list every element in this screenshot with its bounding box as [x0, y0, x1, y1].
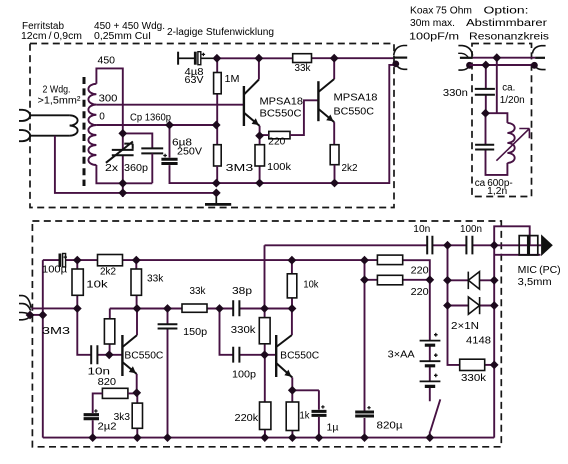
- resistor R9 10k: [72, 269, 83, 295]
- svg-text:3,5mm: 3,5mm: [518, 277, 552, 288]
- wire 100p to Q4 base: [239, 354, 275, 356]
- svg-text:250V: 250V: [177, 147, 202, 158]
- arrow Q3 emitter: [129, 366, 136, 373]
- svg-text:330n: 330n: [443, 88, 468, 99]
- arrow Q1 emitter: [252, 118, 259, 125]
- svg-text:450: 450: [98, 56, 116, 67]
- junction dots top box: [118, 54, 339, 197]
- resistor R19 220 upper: [377, 255, 402, 265]
- capacitor C6 ca.1/20n: [475, 145, 494, 150]
- svg-text:10k: 10k: [303, 280, 319, 291]
- wire Q4 emitter node: [292, 390, 319, 437]
- transistor Q3 BC550C: [122, 309, 137, 393]
- coax connector J2 input: [458, 46, 473, 71]
- resistor R4 220: [260, 100, 319, 138]
- svg-text:100µ: 100µ: [42, 265, 67, 276]
- resistor R7 2k2: [330, 145, 339, 183]
- svg-text:BC550C: BC550C: [124, 351, 163, 362]
- svg-text:2k2: 2k2: [342, 163, 358, 174]
- wire 0 tap: [96, 124, 216, 126]
- antenna terminal A3 upper: [19, 296, 31, 311]
- wire 330n bottom lead: [485, 95, 487, 114]
- capacitor C13 1u electrolytic: [312, 405, 327, 415]
- svg-text:3M3: 3M3: [226, 163, 254, 174]
- wire 10k2 leads: [291, 260, 293, 308]
- capacitor C3 4u8 63V electrolytic: [178, 52, 217, 65]
- wire center pin: [473, 57, 536, 59]
- wire variable cap bottom: [122, 155, 124, 197]
- transformer primary L1a (2 Wdg.): [70, 115, 78, 135]
- resistor R16 220k: [260, 402, 271, 430]
- wire 38p tap down to 100p: [220, 309, 234, 355]
- wire C1b bottom: [151, 153, 153, 183]
- capacitor C5 330n: [475, 89, 495, 95]
- svg-text:MPSA18: MPSA18: [260, 97, 304, 108]
- svg-text:3k3: 3k3: [114, 412, 131, 423]
- wire bottom ground rail: [43, 437, 494, 439]
- svg-text:MIC (PC): MIC (PC): [518, 265, 561, 276]
- wire battery cells links: [429, 346, 431, 401]
- transistor Q1 MPSA18/BC550C: [244, 58, 260, 136]
- svg-text:Abstimmbarer: Abstimmbarer: [466, 18, 548, 29]
- svg-text:12cm / 0,9cm: 12cm / 0,9cm: [21, 31, 82, 42]
- wire coil bottom to rail: [96, 165, 152, 183]
- wire 450 tap to tuning caps: [96, 68, 122, 149]
- wire 3M3b bottom: [109, 344, 111, 355]
- wire antenna input: [31, 307, 77, 309]
- resistor R21 330k horizontal: [460, 359, 485, 370]
- svg-text:Option:: Option:: [484, 6, 529, 17]
- svg-text:Cp 1360p: Cp 1360p: [130, 113, 171, 124]
- svg-text:2×1N: 2×1N: [451, 321, 479, 332]
- svg-text:4148: 4148: [466, 336, 491, 347]
- wire antenna A1 to primary top: [30, 114, 69, 116]
- resistor R8 2k2: [98, 255, 123, 266]
- wire cap2 leads: [486, 113, 508, 175]
- wire supply rail: [66, 260, 430, 280]
- wire shield: [470, 64, 535, 66]
- svg-text:100k: 100k: [267, 162, 292, 173]
- svg-text:0,25mm CuI: 0,25mm CuI: [94, 31, 151, 42]
- capacitor C8 10n: [91, 345, 97, 364]
- resistor R14 33k horizontal: [182, 304, 207, 312]
- svg-text:2 Wdg.: 2 Wdg.: [43, 85, 71, 96]
- wire 3M3b top: [109, 309, 111, 319]
- svg-text:1µ: 1µ: [327, 423, 339, 434]
- capacitor C11 38p: [233, 300, 239, 316]
- ferrite rod (dashed): [83, 77, 86, 186]
- resistor R18 1k: [286, 402, 299, 431]
- resistor R10 33k vertical: [131, 269, 142, 295]
- wire 300 tap to Q1 base: [96, 104, 243, 106]
- wire 820u rail: [364, 260, 366, 437]
- svg-text:30m max.: 30m max.: [410, 18, 455, 29]
- wire 150p leads: [167, 309, 169, 438]
- svg-text:33k: 33k: [295, 63, 312, 74]
- transistor Q4 BC550C: [276, 309, 292, 391]
- input terminal bar of C3: [177, 52, 179, 65]
- svg-text:BC550C: BC550C: [280, 351, 319, 362]
- variable inductor L2: [507, 123, 514, 163]
- switch S1: [430, 399, 441, 437]
- capacitor C9 2u2 electrolytic: [84, 409, 99, 437]
- arrow Q4 emitter: [284, 370, 291, 377]
- svg-text:BC550C: BC550C: [334, 107, 375, 118]
- wire 10k1 leads: [76, 260, 78, 308]
- svg-text:1k: 1k: [300, 411, 311, 422]
- battery B1 3xAA: [420, 333, 441, 387]
- arrow variable inductor: [496, 129, 529, 161]
- capacitor C10 150p: [158, 324, 178, 328]
- wire 33kv leads: [135, 260, 137, 308]
- wire 3M3 bottom: [216, 166, 218, 183]
- wire antenna lower terminal: [31, 314, 43, 316]
- svg-text:820: 820: [98, 377, 117, 388]
- capacitor C16 100n: [466, 236, 472, 255]
- dashed box: microphone amplifier stage: [32, 221, 501, 447]
- svg-text:100n: 100n: [460, 224, 482, 235]
- wire battery top: [429, 280, 431, 341]
- wire C2 leads and ground rail right: [170, 65, 395, 183]
- svg-text:1/20n: 1/20n: [500, 95, 525, 106]
- wire left ground drop: [42, 260, 44, 438]
- wire diode rail right / jack ground: [493, 245, 495, 437]
- svg-text:BC550C: BC550C: [260, 109, 302, 120]
- resistor R13 3k3: [132, 393, 142, 438]
- capacitor C7 100u electrolytic: [59, 254, 68, 267]
- resistor R6 3M3: [214, 145, 222, 166]
- svg-text:360p: 360p: [124, 163, 148, 174]
- svg-text:100p: 100p: [232, 370, 256, 381]
- svg-text:>1,5mm²: >1,5mm²: [38, 96, 82, 107]
- capacitor C15 10n: [427, 236, 432, 255]
- wire D2 row: [448, 305, 495, 307]
- svg-text:100pF/m: 100pF/m: [409, 32, 459, 43]
- svg-text:220k: 220k: [235, 413, 260, 424]
- svg-text:Resonanzkreis: Resonanzkreis: [469, 32, 549, 43]
- transformer secondary L1b winding: [88, 84, 96, 165]
- resistor R11 3M3: [104, 319, 114, 344]
- antenna terminal A2 (top box, lower): [19, 130, 30, 141]
- resistor R5 100k: [255, 136, 265, 183]
- svg-text:1M: 1M: [225, 74, 240, 85]
- wire 330n top lead: [485, 65, 487, 89]
- jack plug MIC 3,5mm: [519, 234, 553, 256]
- wire antenna A2 to primary bottom: [30, 135, 69, 137]
- wire jack sleeve: [494, 254, 540, 256]
- diode D1 1N4148: [468, 272, 479, 290]
- junction dots bottom box: [26, 241, 499, 442]
- resistor R3 33k series: [293, 54, 312, 63]
- resistor R2 1M: [214, 58, 222, 144]
- junction dots option box: [481, 53, 501, 117]
- svg-text:820µ: 820µ: [377, 421, 403, 432]
- svg-text:Koax 75 Ohm: Koax 75 Ohm: [410, 6, 472, 17]
- wire 1u leads: [318, 390, 320, 437]
- svg-text:330k: 330k: [231, 325, 257, 336]
- svg-text:220: 220: [411, 266, 429, 277]
- resistor R20 220 lower: [377, 275, 402, 285]
- resistor R15 330k vertical: [259, 318, 270, 344]
- svg-text:ca.: ca.: [502, 83, 515, 94]
- svg-text:10k: 10k: [86, 280, 109, 291]
- capacitor C14 820u electrolytic: [355, 406, 374, 416]
- wire primary bottom to ground rail: [55, 136, 216, 193]
- wire 330kh right lead: [485, 364, 495, 366]
- wire 220k leads: [264, 355, 266, 438]
- svg-text:63V: 63V: [185, 75, 204, 86]
- plus sign C2: [163, 154, 167, 158]
- svg-text:3M3: 3M3: [42, 326, 71, 337]
- dashed box: Ferritstab amplifier stage: [30, 44, 394, 208]
- svg-text:2-lagige Stufenwicklung: 2-lagige Stufenwicklung: [167, 27, 274, 38]
- wire diode rail left: [448, 245, 460, 365]
- svg-text:1,2n: 1,2n: [487, 186, 507, 197]
- capacitor C2 6u8 250V electrolytic: [161, 159, 177, 163]
- resistor R12 820: [93, 388, 137, 413]
- resistor R17 10k: [287, 274, 297, 298]
- antenna terminal A1 (top box, upper): [19, 110, 30, 121]
- svg-text:0: 0: [99, 112, 105, 123]
- svg-text:38p: 38p: [232, 286, 253, 297]
- wire caps node branch: [123, 133, 153, 148]
- capacitor C12 100p: [233, 347, 239, 363]
- wire input to C10n: [77, 309, 91, 355]
- wire node E to inductor top: [486, 113, 508, 123]
- dashed box: optional resonant circuit: [472, 44, 532, 197]
- wire 100u left lead: [43, 259, 59, 261]
- wire D1 row: [448, 279, 495, 281]
- svg-text:33k: 33k: [190, 286, 207, 297]
- antenna terminal A4 lower: [19, 313, 31, 320]
- svg-text:2x: 2x: [105, 163, 118, 174]
- wire collector bus: [110, 308, 292, 310]
- svg-text:300: 300: [99, 94, 118, 105]
- svg-text:2µ2: 2µ2: [98, 422, 117, 433]
- wire jack hop: [494, 226, 530, 245]
- wire 330kv leads: [264, 309, 266, 355]
- svg-text:220: 220: [411, 287, 429, 298]
- wire pin drop: [496, 58, 498, 113]
- wire 10n to base: [97, 354, 122, 356]
- svg-text:220: 220: [268, 137, 285, 148]
- svg-text:MPSA18: MPSA18: [334, 93, 378, 104]
- wire signal output: [265, 245, 542, 308]
- svg-text:33k: 33k: [147, 274, 164, 285]
- transistor Q2 MPSA18/BC550C: [318, 58, 334, 145]
- svg-text:150p: 150p: [183, 327, 207, 338]
- ground symbol: [205, 193, 231, 205]
- coax output connector J1: [392, 46, 407, 70]
- svg-text:10n: 10n: [413, 224, 430, 235]
- coax connector J3 output: [531, 46, 546, 70]
- svg-text:3×AA: 3×AA: [388, 350, 415, 361]
- variable capacitor C1a 2x360p: [106, 142, 134, 163]
- arrow Q2 emitter: [326, 115, 333, 122]
- capacitor C1b 360p second gang: [141, 148, 163, 153]
- svg-text:2k2: 2k2: [100, 267, 116, 278]
- wire top supply rail: [217, 57, 393, 59]
- diode D2 1N4148: [468, 297, 479, 314]
- svg-text:330k: 330k: [461, 373, 487, 384]
